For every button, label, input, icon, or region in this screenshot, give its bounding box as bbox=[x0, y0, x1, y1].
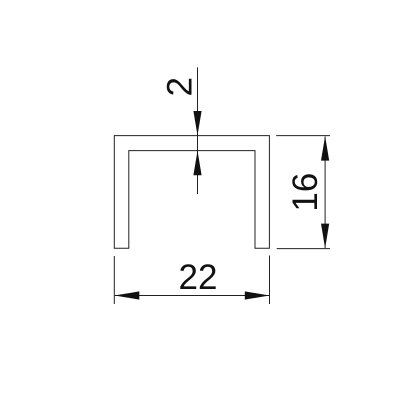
dimension 22: left arrow bbox=[115, 291, 140, 299]
dimension 22: dim line bbox=[115, 295, 270, 297]
dimension 16: extension lines bbox=[276, 135, 330, 137]
dimension 16: top arrow bbox=[321, 136, 329, 161]
dimension 22: right arrow bbox=[245, 291, 270, 299]
dimension 2: vertical dim line bbox=[197, 67, 199, 194]
dimension 2: up arrow bbox=[193, 151, 201, 176]
svg-text:2: 2 bbox=[160, 77, 199, 96]
svg-text:22: 22 bbox=[179, 258, 218, 297]
svg-text:16: 16 bbox=[286, 173, 325, 212]
U-channel profile outline bbox=[114, 136, 269, 249]
dimension 16: dim line bbox=[324, 137, 326, 249]
dimension 22: extension lines bbox=[113, 256, 115, 304]
dimension 16: bottom arrow bbox=[321, 224, 329, 249]
dimension 2: down arrow bbox=[193, 111, 201, 136]
